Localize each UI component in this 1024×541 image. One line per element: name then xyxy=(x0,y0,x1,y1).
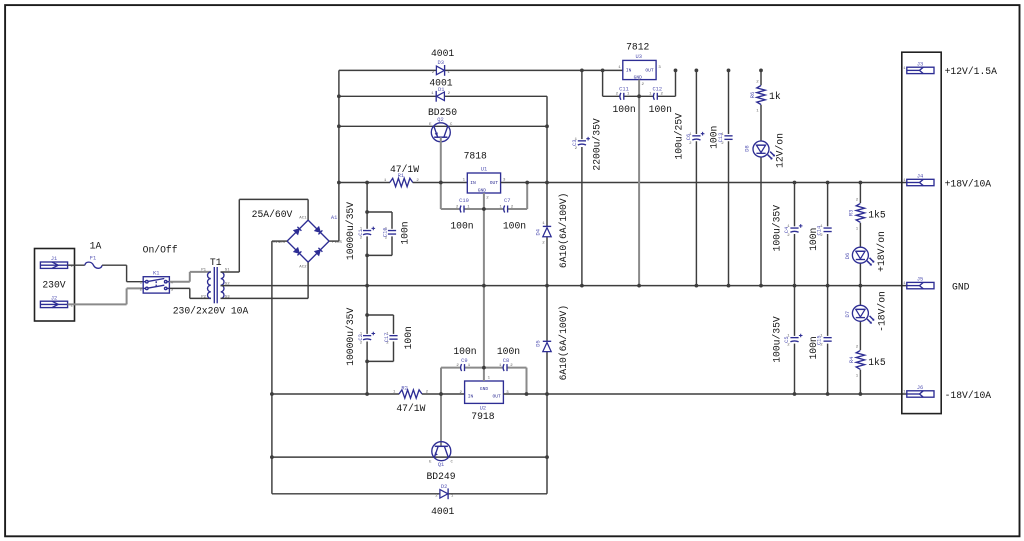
capacitor C7 100n xyxy=(499,198,526,231)
junction at 367.1,182.5 xyxy=(365,181,369,185)
wire 7918 OUT to -18V rail xyxy=(503,393,906,395)
resistor R4 1k5 xyxy=(849,345,886,378)
svg-text:GND: GND xyxy=(952,281,970,292)
junction at 526.5,394 xyxy=(525,392,529,396)
capacitor C5 100u/35V xyxy=(771,316,802,363)
svg-text:100n: 100n xyxy=(808,336,819,359)
svg-text:7818: 7818 xyxy=(464,151,487,162)
junction at 728.5,70.4 xyxy=(727,69,731,73)
svg-text:C4: C4 xyxy=(784,227,790,233)
wire S2 center tap GND rail xyxy=(221,285,907,287)
svg-text:AC2: AC2 xyxy=(299,266,307,270)
capacitor C6 100u/25V xyxy=(674,113,705,160)
wire C15 column xyxy=(827,286,829,394)
svg-text:OUT: OUT xyxy=(645,68,654,74)
svg-text:C12: C12 xyxy=(652,86,662,92)
capacitor C8 100n xyxy=(497,346,520,371)
capacitor C2 10000u/35V xyxy=(345,308,375,366)
wire C16 loop xyxy=(367,212,392,255)
svg-text:47/1W: 47/1W xyxy=(396,403,425,414)
junction at 547,126.3 xyxy=(545,124,549,128)
svg-text:J3: J3 xyxy=(917,61,923,67)
junction at 547,457.1 xyxy=(545,455,549,459)
wire R2 to 7918 IN xyxy=(422,393,465,395)
svg-text:J6: J6 xyxy=(917,385,923,391)
svg-text:P2: P2 xyxy=(201,295,206,299)
junction at 639.1,285.6 xyxy=(637,284,641,288)
junction at 794.5,394 xyxy=(793,392,797,396)
wire Q1 base up to 7918 input xyxy=(440,368,442,447)
svg-text:C3: C3 xyxy=(572,140,578,146)
capacitor C17 100n xyxy=(384,326,414,349)
diode D2 4001 xyxy=(431,484,454,517)
wire C13 column xyxy=(728,70,730,285)
svg-text:R6: R6 xyxy=(750,92,756,98)
connector J4 +18V/10A xyxy=(903,173,991,189)
wire R6 D8 column xyxy=(760,70,762,285)
junction at 547,285.6 xyxy=(545,284,549,288)
connector J6 -18V/10A xyxy=(903,385,991,401)
wire 7818 OUT to +18V rail xyxy=(501,182,907,184)
regulator U2 7918 xyxy=(459,376,509,421)
wire Q1 collector-emitter row xyxy=(272,456,547,458)
wire R1 to 7818 IN xyxy=(413,182,468,184)
svg-text:100n: 100n xyxy=(497,346,520,357)
wire vertical D1-D4-D5 column xyxy=(546,96,548,494)
svg-text:12V/on: 12V/on xyxy=(774,133,785,168)
svg-text:R2: R2 xyxy=(401,385,407,391)
switch K1 On/Off xyxy=(140,244,178,293)
junction at 367.1,285.6 xyxy=(365,284,369,288)
junction at 367.1,255.4 xyxy=(365,254,369,258)
capacitor C15 100n xyxy=(808,335,832,360)
svg-text:GND: GND xyxy=(480,386,489,392)
LED D7 -18V/on xyxy=(845,291,888,332)
junction at 581.9,285.6 xyxy=(580,284,584,288)
junction at 860.4,394 xyxy=(859,392,863,396)
junction at 696.4,285.6 xyxy=(695,284,699,288)
svg-text:2200u/35V: 2200u/35V xyxy=(592,118,603,171)
junction at 483.9,285.6 xyxy=(482,284,486,288)
svg-text:OUT: OUT xyxy=(490,180,499,186)
svg-text:C11: C11 xyxy=(619,86,629,92)
capacitor C12 100n xyxy=(649,86,672,115)
svg-text:10000u/35V: 10000u/35V xyxy=(345,308,356,366)
junction at 441,394 xyxy=(439,392,443,396)
wire K1 to transformer P1 xyxy=(169,272,211,282)
junction at 483.9,209 xyxy=(482,207,486,211)
connector J2 xyxy=(40,295,73,308)
wire D2 row xyxy=(272,493,547,495)
wire bypass cap row at 7918 xyxy=(441,368,527,394)
svg-text:J5: J5 xyxy=(917,277,923,283)
junction at 761,285.6 xyxy=(759,284,763,288)
svg-text:P1: P1 xyxy=(201,269,206,273)
wire bypass cap row at 7818 xyxy=(441,183,527,210)
capacitor C14 100n xyxy=(808,225,832,251)
svg-text:C5: C5 xyxy=(784,336,790,342)
svg-text:IN: IN xyxy=(470,180,476,186)
resistor R3 1k5 xyxy=(848,198,886,231)
junction at 547,182.5 xyxy=(545,181,549,185)
bridge labels xyxy=(252,209,343,270)
junction at 338.9,126.3 xyxy=(337,124,341,128)
diode D4 6A10 xyxy=(536,193,570,269)
capacitor C4 100u/35V xyxy=(771,205,802,252)
wire S3 to bridge AC2 xyxy=(221,262,309,298)
diode D1 4001 xyxy=(429,78,452,102)
wire C2 column xyxy=(366,286,368,394)
wire C3 column xyxy=(581,70,583,285)
capacitor C11 100n xyxy=(612,86,635,115)
svg-text:F1: F1 xyxy=(90,255,96,261)
svg-text:4001: 4001 xyxy=(431,48,454,59)
svg-text:T1: T1 xyxy=(210,257,222,268)
svg-text:+18V/10A: +18V/10A xyxy=(945,178,992,189)
wire R3 D6 column xyxy=(859,183,861,286)
svg-text:U3: U3 xyxy=(636,54,642,60)
svg-text:D2: D2 xyxy=(441,484,447,490)
svg-text:J1: J1 xyxy=(51,256,57,262)
input box 230V xyxy=(35,249,75,322)
wire C5 column xyxy=(794,286,796,394)
svg-text:GND: GND xyxy=(478,188,487,194)
junction at 367.1,361.4 xyxy=(365,360,369,364)
wire C17 loop xyxy=(367,315,393,361)
resistor R6 1k xyxy=(750,80,781,113)
wire J2 to switch K1 pin2 xyxy=(68,288,144,304)
svg-text:100n: 100n xyxy=(708,126,719,149)
svg-text:1k5: 1k5 xyxy=(868,210,886,221)
svg-text:-18V/on: -18V/on xyxy=(876,291,887,332)
wire 7918 GND column xyxy=(483,286,485,381)
svg-text:C17: C17 xyxy=(384,333,390,343)
junction at 271.9,457.1 xyxy=(270,455,274,459)
svg-text:4001: 4001 xyxy=(429,78,452,89)
svg-text:C8: C8 xyxy=(503,358,509,364)
svg-text:7918: 7918 xyxy=(471,411,494,422)
svg-text:-18V/10A: -18V/10A xyxy=(945,390,992,401)
wire raw negative to R2 xyxy=(272,393,399,395)
wire D3 row raw positive to 7812 xyxy=(339,69,623,71)
connector J5 GND xyxy=(903,277,970,293)
svg-text:BD249: BD249 xyxy=(426,471,455,482)
svg-text:C16: C16 xyxy=(382,227,388,237)
svg-text:D8: D8 xyxy=(745,145,751,151)
junction at 271.9,394 xyxy=(270,392,274,396)
svg-text:100n: 100n xyxy=(400,221,411,244)
resistor R2 47/1W xyxy=(393,385,429,414)
capacitor C9 100n xyxy=(453,346,476,371)
svg-text:4001: 4001 xyxy=(431,506,454,517)
bridge rectifier A1 25A/60V xyxy=(287,220,329,262)
diode D3 4001 xyxy=(431,48,454,76)
svg-text:230/2x20V 10A: 230/2x20V 10A xyxy=(173,305,249,316)
output box xyxy=(902,52,941,413)
svg-text:100n: 100n xyxy=(450,220,473,231)
svg-text:C6: C6 xyxy=(686,134,692,140)
junction at 547,394 xyxy=(545,392,549,396)
junction at 827.6,285.6 xyxy=(826,284,830,288)
junction at 639.1,96.3 xyxy=(637,94,641,98)
svg-text:Q1: Q1 xyxy=(438,462,444,468)
junction at 483.9,367.6 xyxy=(482,366,486,370)
svg-text:D3: D3 xyxy=(437,60,443,66)
wire J1 to fuse xyxy=(68,264,85,266)
svg-text:1k5: 1k5 xyxy=(868,357,886,368)
junction at 761,70.4 xyxy=(759,69,763,73)
LED D8 12V/on xyxy=(745,133,786,168)
regulator U3 7812 xyxy=(618,41,661,87)
svg-text:100n: 100n xyxy=(503,220,526,231)
junction at 581.9,70.4 xyxy=(580,69,584,73)
svg-text:R3: R3 xyxy=(848,210,854,216)
capacitor C10 100n xyxy=(450,198,473,231)
svg-text:100n: 100n xyxy=(612,104,635,115)
svg-text:BD250: BD250 xyxy=(428,107,457,118)
junction at 367.1,394 xyxy=(365,392,369,396)
svg-text:1A: 1A xyxy=(90,240,102,251)
wire Q2 base down to 7818 input xyxy=(440,137,442,209)
svg-text:IN: IN xyxy=(626,68,632,74)
junction at 338.9,96.3 xyxy=(337,94,341,98)
wire D7 R4 column xyxy=(859,286,861,394)
transistor Q2 BD250 xyxy=(428,107,457,142)
svg-text:25A/60V: 25A/60V xyxy=(252,209,293,220)
wire C6 column xyxy=(695,70,697,285)
svg-text:J4: J4 xyxy=(917,173,923,179)
bridge diode lower-right xyxy=(315,248,323,256)
svg-text:6A10(6A/100V): 6A10(6A/100V) xyxy=(558,193,569,269)
svg-text:D6: D6 xyxy=(845,253,851,259)
svg-text:10000u/35V: 10000u/35V xyxy=(345,202,356,260)
wire K1 to transformer P2 xyxy=(169,288,211,298)
junction at 860.4,182.5 xyxy=(859,181,863,185)
svg-text:+12V/1.5A: +12V/1.5A xyxy=(945,66,998,77)
wire Q2 collector-emitter row xyxy=(339,125,547,127)
regulator U1 7818 xyxy=(463,151,506,201)
svg-text:C7: C7 xyxy=(504,198,510,204)
fuse F1 xyxy=(85,240,102,268)
svg-text:100u/35V: 100u/35V xyxy=(771,205,782,252)
svg-text:100n: 100n xyxy=(649,104,672,115)
svg-text:100u/25V: 100u/25V xyxy=(674,113,685,160)
capacitor C13 100n xyxy=(708,126,732,149)
junction at 728.5,285.6 xyxy=(727,284,731,288)
capacitor C1 10000u/35V xyxy=(345,202,375,260)
junction at 527.2,182.5 xyxy=(525,181,529,185)
wire S1 to bridge AC1 xyxy=(221,199,309,272)
svg-text:J2: J2 xyxy=(51,295,57,301)
wire D1 row xyxy=(339,95,547,97)
svg-text:K1: K1 xyxy=(153,271,159,277)
junction at 440.8,182.5 xyxy=(439,181,443,185)
svg-text:On/Off: On/Off xyxy=(143,244,178,255)
svg-text:100n: 100n xyxy=(403,326,414,349)
svg-text:230V: 230V xyxy=(42,279,65,290)
wire C4 column xyxy=(794,183,796,286)
resistor R1 47/1W xyxy=(384,164,420,187)
svg-text:C1: C1 xyxy=(358,229,364,235)
svg-text:C10: C10 xyxy=(459,198,469,204)
LED D6 +18V/on xyxy=(845,231,887,272)
svg-text:100u/35V: 100u/35V xyxy=(771,316,782,363)
svg-text:+18V/on: +18V/on xyxy=(876,231,887,272)
junction at 860.4,285.6 xyxy=(859,284,863,288)
junction at 367.1,212 xyxy=(365,210,369,214)
transformer T1 230/2x20V 10A xyxy=(173,257,249,317)
svg-text:AC1: AC1 xyxy=(299,216,307,220)
transistor Q1 BD249 xyxy=(426,442,455,482)
svg-text:IN: IN xyxy=(468,394,474,400)
wire fuse to switch K1 pin1 xyxy=(102,265,143,282)
svg-text:D7: D7 xyxy=(845,311,851,317)
wire C1 column xyxy=(366,183,368,286)
svg-text:C2: C2 xyxy=(358,334,364,340)
svg-text:C9: C9 xyxy=(461,358,467,364)
svg-text:D5: D5 xyxy=(536,340,542,346)
svg-text:7812: 7812 xyxy=(626,41,649,52)
wire 7812 GND column xyxy=(638,80,640,286)
svg-text:R4: R4 xyxy=(849,357,855,363)
wire bridge PLUS up to positive raw rail xyxy=(329,70,339,241)
bridge diode lower-left xyxy=(294,248,302,256)
junction at 794.5,285.6 xyxy=(793,284,797,288)
junction at 827.6,394 xyxy=(826,392,830,396)
junction at 338.9,182.5 xyxy=(337,181,341,185)
junction at 696.4,70.4 xyxy=(695,69,699,73)
svg-text:A1: A1 xyxy=(331,215,337,221)
svg-text:GND: GND xyxy=(634,74,643,80)
svg-text:100n: 100n xyxy=(453,346,476,357)
svg-text:6A10(6A/100V): 6A10(6A/100V) xyxy=(558,305,569,381)
junction at 827.6,182.5 xyxy=(826,181,830,185)
diode D5 6A10 xyxy=(536,305,570,381)
wire raw positive to R1 xyxy=(339,182,390,184)
svg-text:U1: U1 xyxy=(481,166,487,172)
wire 7818 GND column xyxy=(483,193,485,286)
connector J3 +12V/1.5A xyxy=(903,61,997,77)
junction at 367.1,315 xyxy=(365,313,369,317)
bridge diode upper-left xyxy=(294,227,302,235)
svg-text:1k: 1k xyxy=(769,91,781,102)
svg-text:47/1W: 47/1W xyxy=(390,164,419,175)
wire C14 column xyxy=(827,183,829,286)
connector J1 xyxy=(40,256,73,269)
svg-text:D4: D4 xyxy=(536,229,542,235)
wire bridge MINUS down to negative raw rail xyxy=(272,241,287,494)
capacitor C16 100n xyxy=(382,221,410,244)
junction at 794.5,182.5 xyxy=(793,181,797,185)
svg-text:OUT: OUT xyxy=(493,394,502,400)
wire C11 C12 loop xyxy=(603,70,676,96)
svg-text:100n: 100n xyxy=(808,228,819,251)
junction at 602.6,70.4 xyxy=(601,69,605,73)
capacitor C3 2200u/35V xyxy=(572,118,603,171)
junction at 675.5,70.4 xyxy=(674,69,678,73)
bridge diode upper-right xyxy=(315,227,323,235)
